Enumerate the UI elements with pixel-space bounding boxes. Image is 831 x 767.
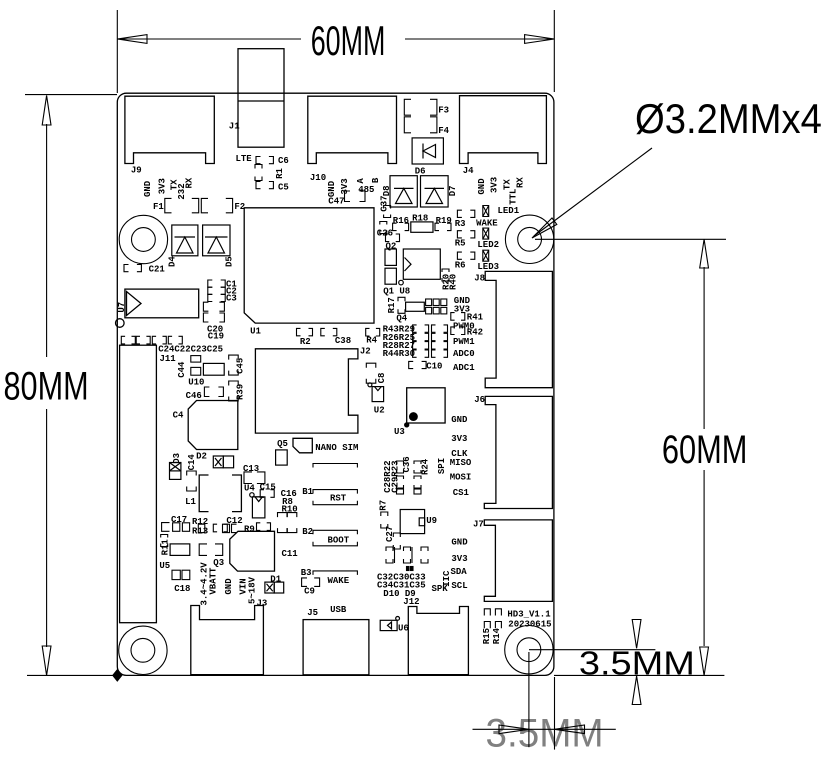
callout dia 3.2MM x 4 (532, 95, 822, 238)
svg-text:3V3: 3V3 (490, 177, 500, 193)
svg-text:WAKE: WAKE (328, 576, 350, 586)
IC U8 (399, 249, 441, 285)
capacitor C11 (230, 531, 299, 571)
svg-text:TTL: TTL (508, 189, 518, 205)
svg-text:C3: C3 (226, 293, 237, 303)
svg-text:C44: C44 (177, 361, 187, 378)
svg-text:C12: C12 (226, 516, 242, 526)
resistor R4 (366, 328, 380, 345)
mounting hole bottom-right (505, 626, 553, 674)
svg-text:C5: C5 (278, 182, 289, 192)
capacitor C46 (186, 387, 224, 401)
capacitor C26 (377, 222, 393, 239)
svg-text:J9: J9 (131, 165, 142, 175)
net labels J6 column (437, 415, 472, 498)
svg-text:F2: F2 (234, 202, 245, 212)
svg-text:C37: C37 (379, 195, 389, 211)
capacitor C16 resistors R8 R10 labels (281, 489, 298, 515)
svg-text:U3: U3 (394, 427, 405, 437)
IC U4 (244, 484, 265, 518)
fuse F2 (201, 198, 245, 212)
net labels J4 RX TTL TX 3V3 GND (477, 177, 525, 205)
fuse F1 (153, 198, 199, 212)
svg-text:485: 485 (358, 185, 374, 195)
svg-text:R14: R14 (492, 627, 502, 644)
svg-text:C45: C45 (236, 358, 246, 374)
dimension 80MM left (4, 95, 118, 676)
capacitor C14 (187, 454, 198, 491)
IC U9 (400, 510, 437, 534)
svg-text:20230615: 20230615 (508, 620, 551, 630)
resistor R3 (455, 210, 499, 229)
connector J1 LTE antenna (229, 49, 284, 164)
svg-text:R3: R3 (455, 219, 466, 229)
capacitor C21 (124, 264, 165, 274)
capacitor C20 (203, 302, 224, 342)
svg-text:R41: R41 (467, 312, 484, 322)
connector J5 USB (303, 605, 369, 675)
svg-text:C15: C15 (260, 483, 276, 493)
connector J6 (474, 395, 552, 509)
resistor R39 (229, 381, 246, 401)
svg-text:3V3: 3V3 (451, 434, 467, 444)
svg-text:5~18V: 5~18V (248, 576, 258, 604)
svg-text:ADC0: ADC0 (453, 349, 475, 359)
svg-text:Q2: Q2 (386, 241, 397, 251)
fuse F3 (404, 99, 449, 115)
net labels J10 B A 485 3V3 GND C47 (327, 177, 381, 206)
capacitor C37 (379, 195, 390, 217)
svg-text:R4: R4 (366, 336, 377, 346)
svg-text:SPI: SPI (437, 458, 447, 474)
IC U7 (116, 289, 199, 327)
svg-text:J7: J7 (473, 520, 484, 530)
resistor R2 (297, 328, 313, 347)
svg-text:HD3_V1.1: HD3_V1.1 (507, 609, 551, 619)
resistors R28 R27 row (383, 341, 448, 351)
svg-text:LED3: LED3 (477, 262, 499, 272)
diode D5 (203, 225, 235, 267)
net labels J8 column (453, 296, 475, 373)
capacitor C5 (256, 182, 289, 193)
IC U6 (380, 617, 409, 634)
capacitors C30-C35 cluster (377, 547, 428, 599)
svg-text:Q3: Q3 (213, 558, 224, 568)
svg-text:R9: R9 (244, 524, 255, 534)
transistor Q3 (199, 544, 224, 568)
diode D3 (170, 453, 183, 479)
connector J7 (473, 520, 552, 602)
capacitors C24 C22 C23 C25 pads (121, 336, 223, 354)
svg-text:R24: R24 (421, 458, 431, 475)
resistor R19 (435, 216, 452, 230)
capacitor C1 (208, 280, 238, 290)
capacitor C10 (409, 361, 443, 371)
svg-text:C18: C18 (174, 584, 190, 594)
svg-text:U4: U4 (244, 484, 255, 494)
svg-text:60MM: 60MM (662, 427, 748, 472)
svg-text:Q5: Q5 (277, 439, 288, 449)
svg-text:J4: J4 (463, 166, 474, 176)
svg-text:C8: C8 (377, 373, 387, 384)
LED LED3 (477, 250, 499, 272)
diode D7 (421, 176, 459, 207)
svg-text:C38: C38 (335, 336, 351, 346)
button B2 BOOT (302, 527, 357, 546)
LED LED2 (477, 228, 499, 250)
svg-text:BOOT: BOOT (328, 535, 350, 545)
svg-text:J2: J2 (360, 347, 371, 357)
svg-text:R40: R40 (448, 274, 458, 290)
svg-text:NANO SIM: NANO SIM (315, 443, 358, 453)
svg-text:VBATT: VBATT (209, 567, 219, 595)
svg-text:C27: C27 (385, 526, 395, 542)
svg-text:F1: F1 (153, 202, 164, 212)
svg-text:D1: D1 (270, 574, 281, 584)
svg-text:C11: C11 (282, 549, 299, 559)
net labels J7 column (432, 538, 469, 594)
dimension 3.5MM bottom (473, 652, 616, 756)
connector J12 (403, 597, 468, 675)
svg-text:R18: R18 (412, 214, 428, 224)
svg-text:J5: J5 (307, 608, 318, 618)
connector J9 (125, 96, 214, 175)
SIM card holder J2 (255, 347, 370, 434)
svg-text:R11: R11 (161, 539, 171, 556)
svg-text:U7: U7 (117, 302, 127, 313)
svg-text:LED1: LED1 (498, 206, 520, 216)
svg-text:B2: B2 (302, 527, 313, 537)
svg-text:SDA: SDA (451, 567, 468, 577)
svg-text:F4: F4 (438, 126, 449, 136)
svg-text:GND: GND (143, 180, 153, 197)
svg-text:R15: R15 (482, 628, 492, 644)
svg-text:3.5MM: 3.5MM (579, 645, 695, 682)
svg-text:TX: TX (502, 179, 512, 190)
svg-text:C19: C19 (208, 332, 224, 342)
svg-text:Ø3.2MMx4: Ø3.2MMx4 (635, 95, 822, 142)
svg-text:C4: C4 (173, 411, 184, 421)
capacitor C16 R8 R10 pads (278, 513, 297, 533)
diode D2 (196, 452, 234, 468)
svg-text:GND: GND (451, 415, 468, 425)
IC U10 (188, 363, 224, 387)
resistor R41 (451, 312, 484, 322)
dimension 60MM right (535, 239, 747, 675)
svg-text:R17: R17 (387, 297, 397, 313)
capacitor C9 (302, 578, 320, 597)
svg-text:C29R23: C29R23 (391, 460, 401, 492)
connector J8 (474, 271, 552, 387)
svg-text:U9: U9 (426, 516, 437, 526)
resistors R20 R40 pads (441, 269, 458, 290)
capacitor C15 (260, 483, 276, 498)
svg-text:C9: C9 (304, 587, 315, 597)
resistor R1 (255, 165, 285, 181)
mounting hole bottom-left (119, 626, 167, 674)
svg-text:GND: GND (451, 538, 468, 548)
svg-text:R7: R7 (378, 500, 388, 511)
connector J10 (308, 96, 397, 183)
svg-text:R2: R2 (300, 337, 311, 347)
transistor Q4 (396, 302, 424, 323)
resistor R11 (161, 535, 171, 556)
resistor R17 (387, 297, 405, 313)
svg-text:C6: C6 (278, 156, 289, 166)
svg-text:R13: R13 (192, 527, 208, 537)
svg-text:C36: C36 (402, 456, 412, 472)
capacitor C18 (172, 570, 190, 594)
svg-text:C26: C26 (377, 228, 393, 238)
svg-text:R44R30: R44R30 (383, 349, 415, 359)
svg-text:SCL: SCL (451, 581, 467, 591)
svg-text:C10: C10 (426, 362, 442, 372)
svg-text:D8: D8 (382, 185, 392, 196)
resistor R5 (455, 231, 475, 249)
svg-text:3.4~4.2V: 3.4~4.2V (200, 562, 210, 606)
svg-text:GND: GND (477, 178, 487, 195)
svg-text:R6: R6 (455, 261, 466, 271)
board outline (117, 93, 554, 675)
svg-text:MISO: MISO (450, 458, 472, 468)
capacitor C38 (321, 328, 351, 346)
svg-text:B: B (371, 177, 381, 183)
svg-text:D5: D5 (225, 256, 235, 267)
board name HD3_V1.1 20230615 (507, 609, 551, 629)
resistor R9 (244, 523, 271, 535)
svg-text:GND: GND (224, 578, 234, 595)
svg-text:CS1: CS1 (453, 488, 470, 498)
resistor R12 (192, 517, 208, 532)
svg-text:B3: B3 (301, 568, 312, 578)
svg-text:J11: J11 (160, 354, 177, 364)
svg-text:60MM: 60MM (311, 18, 386, 64)
svg-text:F3: F3 (438, 105, 449, 115)
resistor R6 (455, 252, 475, 270)
capacitor C13 (243, 464, 265, 484)
svg-text:80MM: 80MM (4, 364, 89, 409)
capacitor C3 (208, 293, 237, 303)
svg-text:C46: C46 (186, 391, 202, 401)
svg-text:U2: U2 (374, 405, 385, 415)
svg-text:3V3: 3V3 (157, 178, 167, 194)
svg-text:Q1 U8: Q1 U8 (383, 286, 410, 296)
svg-text:R39: R39 (236, 384, 246, 400)
IC U5 (159, 544, 189, 571)
svg-text:LTE: LTE (236, 154, 253, 164)
svg-text:R16: R16 (393, 216, 409, 226)
svg-text:C21: C21 (149, 264, 166, 274)
diode D1 (265, 574, 284, 593)
svg-text:D3: D3 (172, 453, 182, 464)
LED LED1 (483, 206, 520, 217)
svg-text:MOSI: MOSI (450, 473, 472, 483)
net labels VBATT 3.4-4.2V GND VIN 5-18V (200, 562, 258, 606)
svg-text:U5: U5 (159, 561, 170, 571)
svg-text:D7: D7 (448, 185, 458, 196)
svg-text:D10 D9: D10 D9 (383, 589, 415, 599)
inductor L1 (185, 475, 241, 512)
svg-text:R42: R42 (467, 327, 483, 337)
svg-text:J3: J3 (257, 599, 268, 609)
mounting hole top-right (505, 215, 553, 263)
capacitor C44 (177, 356, 201, 378)
capacitor C2 (208, 287, 237, 297)
capacitor C47 pads (345, 191, 366, 202)
dimension 60MM top (117, 10, 554, 93)
capacitor C8 (366, 363, 387, 383)
svg-text:RST: RST (330, 493, 347, 503)
resistor R42 (451, 327, 483, 337)
resistors R44 R30 row (383, 349, 448, 359)
svg-text:J10: J10 (310, 173, 326, 183)
dimension 3.5MM right (529, 620, 695, 705)
svg-text:J8: J8 (474, 273, 485, 283)
connector J4 (460, 96, 547, 177)
datum diamond bottom-left corner (113, 670, 122, 681)
IC U2 (368, 383, 385, 416)
svg-text:U6: U6 (398, 624, 409, 634)
svg-text:B1: B1 (302, 487, 313, 497)
transistor Q1 (383, 249, 410, 296)
fuse F4 (404, 117, 449, 136)
transistor Q2 (386, 234, 400, 251)
svg-text:J6: J6 (474, 395, 485, 405)
svg-text:3V3: 3V3 (451, 554, 467, 564)
capacitor C45 (229, 355, 246, 375)
svg-text:GND: GND (327, 180, 337, 197)
connector J11 (120, 345, 177, 623)
capacitors C28 R22 C29 R23 C36 R24 cluster (383, 456, 431, 494)
resistors R26 R25 row (383, 333, 448, 343)
resistor R16 (393, 216, 409, 230)
svg-text:C17: C17 (171, 515, 187, 525)
svg-text:L1: L1 (185, 497, 196, 507)
resistor R13 (192, 524, 227, 536)
svg-text:USB: USB (330, 605, 347, 615)
net labels J9 RX TX 232 3V3 GND (143, 177, 195, 200)
diode D8 (382, 176, 417, 207)
capacitor C12 (223, 516, 243, 533)
svg-text:R5: R5 (455, 238, 466, 248)
svg-text:PWM1: PWM1 (453, 337, 475, 347)
button B3 WAKE (301, 568, 358, 586)
button B1 RST (302, 464, 357, 505)
svg-text:Q4: Q4 (396, 313, 407, 323)
svg-text:C13: C13 (243, 464, 259, 474)
capacitor C27 (385, 526, 400, 549)
capacitor C6 (256, 156, 289, 166)
svg-text:C47: C47 (328, 196, 344, 206)
IC U3 (394, 388, 445, 437)
resistors R43 R29 row (383, 325, 448, 335)
svg-text:R1: R1 (275, 167, 285, 178)
transistor Q5 (276, 439, 288, 465)
resistor R18 (411, 214, 433, 233)
nano sim slot marker (293, 438, 358, 453)
svg-text:232: 232 (177, 183, 187, 199)
svg-text:IIC: IIC (442, 570, 452, 587)
svg-text:U10: U10 (188, 377, 204, 387)
svg-text:D4: D4 (168, 256, 178, 267)
svg-text:A: A (356, 178, 366, 184)
svg-text:RX: RX (515, 177, 525, 188)
svg-text:R19: R19 (436, 216, 452, 226)
connector J3 battery (191, 599, 268, 675)
svg-text:D2: D2 (196, 452, 207, 462)
resistors R14 R15 (482, 609, 502, 644)
svg-text:WAKE: WAKE (476, 218, 498, 228)
capacitor C4 (173, 401, 238, 450)
resistor R7 (378, 500, 388, 528)
capacitor C17 (162, 515, 190, 531)
diode D6 (412, 138, 443, 177)
IC U1 (244, 208, 374, 337)
diode D4 (168, 225, 198, 267)
svg-text:U1: U1 (250, 327, 261, 337)
svg-text:LED2: LED2 (477, 240, 499, 250)
svg-text:C24C22C23C25: C24C22C23C25 (158, 345, 223, 355)
svg-text:J1: J1 (229, 122, 240, 132)
svg-text:ADC1: ADC1 (453, 363, 475, 373)
mounting hole top-left (119, 215, 167, 263)
transistor 6-pad component near Q4 (426, 299, 447, 314)
